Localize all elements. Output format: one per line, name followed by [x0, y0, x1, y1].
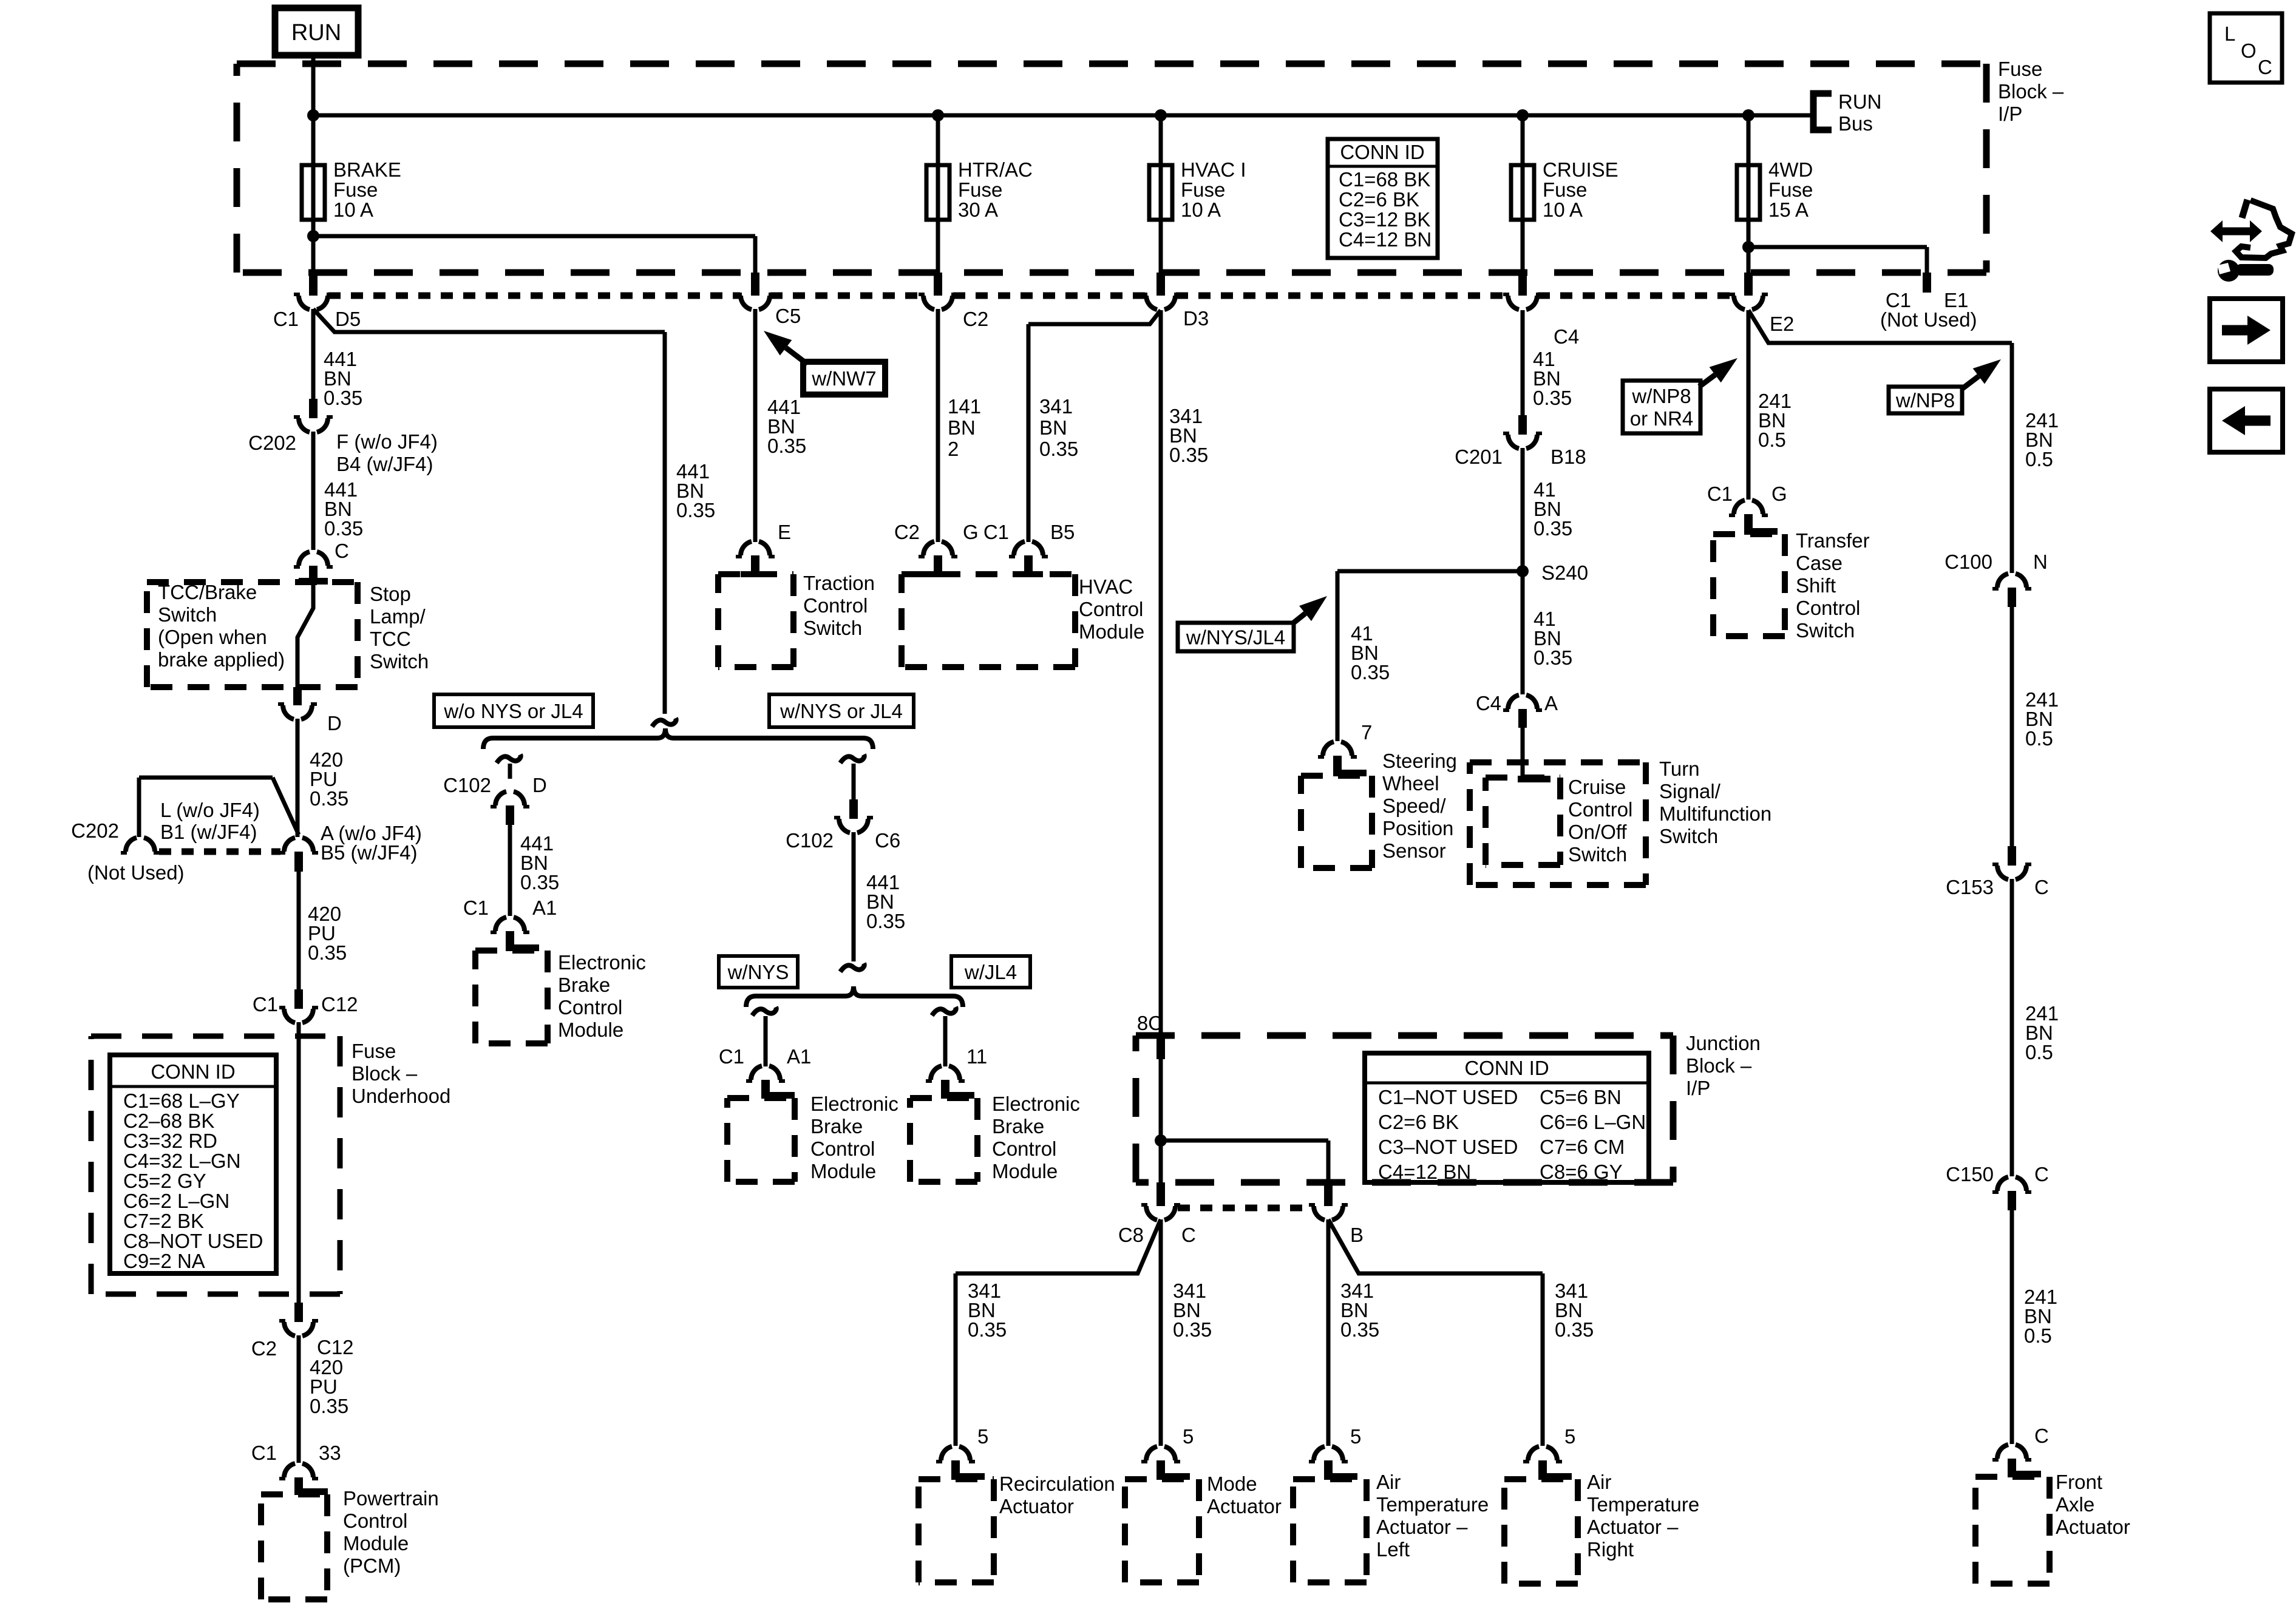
svg-text:C4=12 BN: C4=12 BN [1339, 228, 1432, 251]
svg-text:C2: C2 [251, 1337, 277, 1360]
svg-text:0.5: 0.5 [1758, 429, 1786, 451]
svg-text:0.35: 0.35 [1533, 387, 1572, 409]
svg-text:D: D [327, 712, 342, 734]
svg-text:Underhood: Underhood [352, 1085, 450, 1107]
svg-text:7: 7 [1361, 721, 1372, 744]
svg-text:341: 341 [1039, 395, 1073, 418]
svg-text:Control: Control [1079, 598, 1143, 620]
svg-text:Switch: Switch [803, 617, 862, 639]
svg-text:Fuse: Fuse [352, 1040, 396, 1062]
svg-text:Shift: Shift [1796, 574, 1836, 597]
svg-text:0.35: 0.35 [1039, 438, 1078, 460]
svg-text:Right: Right [1587, 1538, 1634, 1561]
svg-text:HVAC: HVAC [1079, 575, 1133, 598]
svg-text:(PCM): (PCM) [343, 1554, 401, 1577]
svg-text:L: L [2224, 22, 2235, 45]
svg-text:Module: Module [343, 1532, 409, 1554]
svg-text:Fuse: Fuse [1998, 58, 2042, 80]
svg-text:C102: C102 [443, 774, 491, 796]
svg-text:w/NYS or JL4: w/NYS or JL4 [779, 700, 903, 722]
svg-text:Fuse: Fuse [1543, 178, 1587, 201]
svg-text:C153: C153 [1946, 876, 1994, 898]
svg-text:Brake: Brake [810, 1115, 863, 1137]
svg-text:C100: C100 [1944, 551, 1992, 573]
svg-text:Traction: Traction [803, 572, 875, 594]
svg-text:C3=32 RD: C3=32 RD [123, 1130, 217, 1152]
svg-text:Control: Control [803, 594, 868, 617]
svg-text:C6=6 L–GN: C6=6 L–GN [1540, 1111, 1646, 1133]
svg-text:C5=2 GY: C5=2 GY [123, 1170, 206, 1192]
svg-text:C1: C1 [719, 1045, 744, 1068]
svg-text:w/o NYS or JL4: w/o NYS or JL4 [443, 700, 583, 722]
svg-text:TCC: TCC [370, 628, 411, 650]
svg-text:0.35: 0.35 [324, 517, 363, 540]
svg-text:2: 2 [948, 438, 959, 460]
svg-text:0.35: 0.35 [310, 1395, 348, 1417]
svg-text:BN: BN [948, 416, 976, 439]
svg-text:Actuator –: Actuator – [1376, 1516, 1468, 1538]
svg-text:Block –: Block – [1686, 1054, 1752, 1077]
svg-text:G: G [1771, 483, 1787, 505]
svg-text:Control: Control [1568, 798, 1632, 821]
svg-text:C3=12 BK: C3=12 BK [1339, 208, 1430, 231]
svg-text:C8=6 GY: C8=6 GY [1540, 1161, 1623, 1183]
svg-text:C1: C1 [1707, 483, 1733, 505]
svg-text:Air: Air [1376, 1471, 1401, 1493]
svg-text:B5 (w/JF4): B5 (w/JF4) [321, 841, 418, 864]
svg-text:C: C [2034, 1425, 2049, 1447]
svg-text:C1=68 BK: C1=68 BK [1339, 168, 1430, 191]
svg-text:C6: C6 [875, 829, 900, 852]
svg-text:I/P: I/P [1998, 103, 2022, 125]
svg-text:Bus: Bus [1838, 112, 1873, 135]
svg-text:0.35: 0.35 [1555, 1318, 1594, 1341]
svg-text:w/NP8: w/NP8 [1631, 385, 1691, 407]
svg-text:C1: C1 [463, 897, 489, 919]
svg-text:Temperature: Temperature [1587, 1493, 1699, 1516]
svg-text:15 A: 15 A [1768, 198, 1809, 221]
svg-text:C2: C2 [963, 308, 988, 330]
svg-text:w/NYS: w/NYS [727, 961, 789, 983]
svg-text:Case: Case [1796, 552, 1843, 574]
svg-text:E: E [778, 521, 791, 543]
svg-text:10 A: 10 A [333, 198, 373, 221]
svg-text:5: 5 [977, 1425, 988, 1448]
svg-text:Air: Air [1587, 1471, 1611, 1493]
svg-text:5: 5 [1183, 1425, 1194, 1448]
svg-text:C: C [1181, 1224, 1196, 1246]
svg-text:C: C [335, 540, 349, 562]
svg-text:or NR4: or NR4 [1630, 407, 1694, 430]
svg-text:0.5: 0.5 [2025, 448, 2053, 470]
svg-text:C1=68 L–GY: C1=68 L–GY [123, 1090, 240, 1112]
svg-text:C8: C8 [1118, 1224, 1144, 1246]
svg-text:C102: C102 [786, 829, 834, 852]
svg-text:Mode: Mode [1207, 1473, 1257, 1495]
svg-text:4WD: 4WD [1768, 158, 1813, 181]
svg-text:33: 33 [319, 1442, 341, 1464]
svg-text:G: G [963, 521, 979, 543]
svg-text:D: D [532, 774, 547, 796]
svg-text:0.35: 0.35 [676, 499, 715, 521]
svg-text:0.35: 0.35 [1173, 1318, 1212, 1341]
svg-text:C1: C1 [251, 1442, 277, 1464]
svg-text:Fuse: Fuse [1181, 178, 1225, 201]
svg-text:11: 11 [966, 1045, 987, 1068]
svg-text:C150: C150 [1946, 1163, 1994, 1185]
svg-text:Speed/: Speed/ [1382, 795, 1446, 817]
svg-text:B1 (w/JF4): B1 (w/JF4) [160, 821, 257, 843]
svg-text:C2: C2 [894, 521, 920, 543]
svg-text:brake applied): brake applied) [158, 648, 285, 671]
svg-text:Signal/: Signal/ [1659, 780, 1721, 802]
svg-text:Control: Control [558, 996, 622, 1019]
svg-text:30 A: 30 A [958, 198, 998, 221]
svg-text:C8–NOT USED: C8–NOT USED [123, 1230, 263, 1252]
svg-text:Recirculation: Recirculation [999, 1473, 1115, 1495]
svg-text:C: C [2258, 56, 2272, 78]
svg-text:(Open when: (Open when [158, 626, 267, 648]
svg-text:w/NYS/JL4: w/NYS/JL4 [1186, 626, 1285, 649]
svg-text:HTR/AC: HTR/AC [958, 158, 1033, 181]
svg-text:C6=2 L–GN: C6=2 L–GN [123, 1190, 229, 1212]
svg-text:C1: C1 [983, 521, 1009, 543]
svg-text:(Not Used): (Not Used) [87, 861, 185, 884]
svg-text:Front: Front [2056, 1471, 2102, 1493]
svg-text:Steering: Steering [1382, 750, 1457, 772]
svg-text:CRUISE: CRUISE [1543, 158, 1618, 181]
svg-text:Multifunction: Multifunction [1659, 802, 1771, 825]
svg-text:F (w/o JF4): F (w/o JF4) [336, 430, 438, 453]
svg-text:Control: Control [1796, 597, 1860, 619]
svg-text:Electronic: Electronic [810, 1093, 898, 1115]
svg-text:C12: C12 [317, 1336, 354, 1358]
svg-text:RUN: RUN [1838, 90, 1882, 113]
svg-text:C1: C1 [253, 993, 278, 1015]
svg-text:Actuator: Actuator [2056, 1516, 2130, 1538]
svg-text:RUN: RUN [291, 20, 341, 46]
svg-text:0.35: 0.35 [1169, 444, 1208, 466]
svg-text:Module: Module [810, 1160, 876, 1182]
svg-text:Wheel: Wheel [1382, 772, 1439, 795]
svg-text:C5: C5 [775, 305, 801, 327]
svg-text:5: 5 [1564, 1425, 1575, 1448]
svg-text:0.35: 0.35 [1533, 517, 1572, 540]
svg-text:Transfer: Transfer [1796, 529, 1870, 552]
svg-text:BRAKE: BRAKE [333, 158, 401, 181]
svg-text:Switch: Switch [1796, 619, 1855, 642]
svg-text:Module: Module [558, 1019, 623, 1041]
svg-text:Control: Control [343, 1510, 407, 1532]
svg-text:C201: C201 [1455, 446, 1503, 468]
svg-text:0.35: 0.35 [308, 941, 347, 964]
svg-text:Actuator –: Actuator – [1587, 1516, 1679, 1538]
svg-text:C2=6 BK: C2=6 BK [1378, 1111, 1459, 1133]
svg-text:TCC/Brake: TCC/Brake [158, 581, 257, 603]
svg-text:0.35: 0.35 [310, 787, 348, 810]
svg-text:C12: C12 [321, 993, 358, 1015]
svg-text:0.5: 0.5 [2025, 1041, 2053, 1063]
svg-text:10 A: 10 A [1181, 198, 1221, 221]
svg-text:C4: C4 [1554, 325, 1579, 348]
svg-text:I/P: I/P [1686, 1077, 1710, 1099]
svg-text:w/JL4: w/JL4 [964, 961, 1017, 983]
svg-text:Switch: Switch [1568, 843, 1627, 866]
svg-text:0.5: 0.5 [2024, 1324, 2052, 1347]
svg-text:Stop: Stop [370, 583, 411, 605]
svg-text:0.5: 0.5 [2025, 727, 2053, 750]
svg-text:A: A [1544, 692, 1558, 714]
svg-text:CONN ID: CONN ID [1464, 1057, 1549, 1079]
svg-text:L (w/o JF4): L (w/o JF4) [160, 799, 260, 821]
svg-text:A1: A1 [532, 897, 557, 919]
svg-text:B18: B18 [1550, 446, 1586, 468]
svg-text:8C: 8C [1137, 1012, 1163, 1034]
svg-text:B: B [1350, 1224, 1364, 1246]
svg-text:B4 (w/JF4): B4 (w/JF4) [336, 453, 433, 475]
svg-text:CONN ID: CONN ID [151, 1060, 235, 1083]
svg-text:C: C [2034, 876, 2049, 898]
svg-text:Module: Module [992, 1160, 1058, 1182]
svg-text:w/NP8: w/NP8 [1895, 389, 1955, 412]
svg-text:Block –: Block – [352, 1062, 418, 1085]
svg-text:C202: C202 [248, 432, 296, 454]
svg-text:Sensor: Sensor [1382, 839, 1446, 862]
svg-text:0.35: 0.35 [1340, 1318, 1379, 1341]
svg-text:C4: C4 [1476, 692, 1501, 714]
svg-text:Temperature: Temperature [1376, 1493, 1489, 1516]
svg-text:Control: Control [992, 1137, 1056, 1160]
svg-text:Left: Left [1376, 1538, 1410, 1561]
svg-text:141: 141 [948, 395, 981, 418]
svg-text:Brake: Brake [992, 1115, 1044, 1137]
svg-text:0.35: 0.35 [968, 1318, 1007, 1341]
svg-text:CONN ID: CONN ID [1340, 141, 1424, 163]
svg-text:C7=6 CM: C7=6 CM [1540, 1136, 1625, 1158]
svg-text:0.35: 0.35 [1533, 646, 1572, 669]
svg-text:Module: Module [1079, 620, 1144, 643]
svg-text:Actuator: Actuator [1207, 1495, 1282, 1517]
svg-text:w/NW7: w/NW7 [811, 367, 876, 390]
svg-text:C9=2 NA: C9=2 NA [123, 1250, 205, 1272]
svg-text:HVAC I: HVAC I [1181, 158, 1246, 181]
svg-text:B5: B5 [1050, 521, 1075, 543]
svg-text:Brake: Brake [558, 974, 610, 996]
svg-text:D5: D5 [335, 308, 361, 330]
svg-text:(Not Used): (Not Used) [1880, 308, 1977, 331]
svg-text:Block –: Block – [1998, 80, 2064, 103]
svg-text:C202: C202 [71, 819, 119, 842]
svg-text:Lamp/: Lamp/ [370, 605, 426, 628]
svg-text:A1: A1 [787, 1045, 811, 1068]
svg-text:10 A: 10 A [1543, 198, 1583, 221]
svg-text:Cruise: Cruise [1568, 776, 1626, 798]
svg-text:C3–NOT USED: C3–NOT USED [1378, 1136, 1518, 1158]
svg-text:Junction: Junction [1686, 1032, 1761, 1054]
svg-text:On/Off: On/Off [1568, 821, 1627, 843]
svg-text:Switch: Switch [158, 603, 217, 626]
svg-text:C2–68 BK: C2–68 BK [123, 1110, 214, 1132]
svg-text:C4=12 BN: C4=12 BN [1378, 1161, 1471, 1183]
svg-text:Position: Position [1382, 817, 1453, 839]
svg-text:Control: Control [810, 1137, 875, 1160]
svg-text:S240: S240 [1541, 561, 1588, 584]
svg-text:C1: C1 [273, 308, 299, 330]
svg-text:O: O [2241, 39, 2257, 62]
svg-text:0.35: 0.35 [520, 871, 559, 893]
svg-text:Turn: Turn [1659, 758, 1700, 780]
svg-text:C5=6 BN: C5=6 BN [1540, 1086, 1622, 1108]
svg-text:Electronic: Electronic [558, 951, 646, 974]
svg-text:C2=6 BK: C2=6 BK [1339, 188, 1419, 211]
svg-text:0.35: 0.35 [767, 435, 806, 457]
svg-text:Fuse: Fuse [333, 178, 378, 201]
svg-text:BN: BN [1039, 416, 1067, 439]
svg-text:5: 5 [1350, 1425, 1361, 1448]
svg-text:Switch: Switch [1659, 825, 1718, 847]
svg-text:0.35: 0.35 [1351, 661, 1390, 683]
svg-text:C1–NOT USED: C1–NOT USED [1378, 1086, 1518, 1108]
svg-text:Electronic: Electronic [992, 1093, 1080, 1115]
svg-text:Powertrain: Powertrain [343, 1487, 439, 1510]
svg-text:Axle: Axle [2056, 1493, 2094, 1516]
svg-text:Actuator: Actuator [999, 1495, 1074, 1517]
svg-text:Fuse: Fuse [958, 178, 1002, 201]
svg-text:0.35: 0.35 [866, 910, 905, 932]
svg-text:C7=2 BK: C7=2 BK [123, 1210, 204, 1232]
svg-text:D3: D3 [1183, 307, 1209, 330]
svg-text:C4=32 L–GN: C4=32 L–GN [123, 1150, 241, 1172]
svg-text:N: N [2033, 551, 2048, 573]
svg-text:Switch: Switch [370, 650, 429, 673]
svg-text:C: C [2034, 1163, 2049, 1185]
svg-text:Fuse: Fuse [1768, 178, 1813, 201]
svg-text:0.35: 0.35 [324, 387, 362, 409]
svg-text:E2: E2 [1770, 313, 1794, 335]
